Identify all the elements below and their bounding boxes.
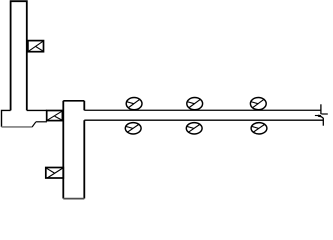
damper FD1 on duct D1	[28, 41, 44, 52]
branch run bottom line	[84, 119, 323, 121]
duct riser D1 (vertical supply duct, open into plenum at bottom)	[11, 1, 27, 110]
plenum foot bottom edge (gray)	[2, 126, 33, 128]
plenum foot lower edge to damper FD2	[36, 121, 47, 123]
duct trunk D2 left edge	[62, 101, 64, 199]
duct trunk D2 top cap	[63, 100, 84, 102]
run continuation break symbol	[315, 104, 328, 125]
diffuser A3 (top row 3)	[250, 98, 266, 110]
diffuser B2 (bottom row 2)	[186, 123, 202, 134]
plenum foot top edge (left of riser)	[2, 110, 11, 127]
diffuser B1 (bottom row 1)	[125, 123, 141, 134]
diffuser A1 (top row 1)	[126, 98, 142, 110]
duct trunk D2 right edge upper segment	[83, 101, 85, 111]
duct trunk D2 bottom cap (gray)	[63, 198, 84, 200]
diffuser A2 (top row 2)	[187, 98, 203, 110]
damper FD2 in horizontal run	[47, 111, 63, 121]
plenum foot top edge (right of riser)	[27, 109, 47, 111]
plenum foot chamfer diagonal	[32, 122, 36, 127]
branch run top line	[84, 109, 320, 111]
diffuser B3 (bottom row 3)	[251, 123, 267, 134]
damper FD3 on duct D2	[46, 168, 64, 179]
duct trunk D2 right edge lower segment	[83, 120, 85, 198]
